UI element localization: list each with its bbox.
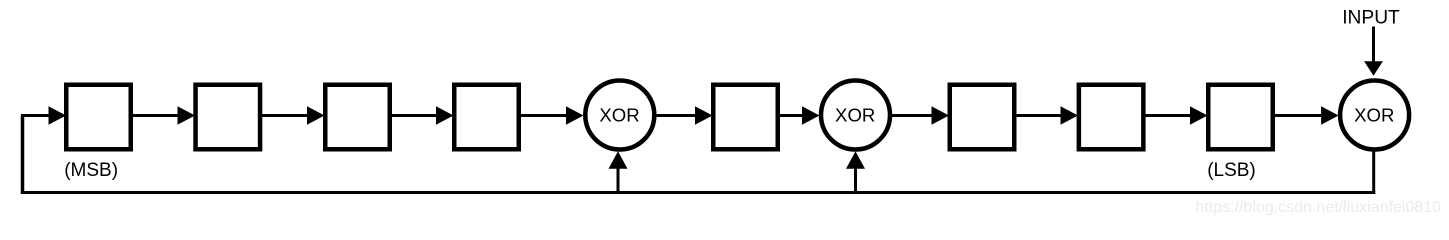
register b5	[325, 85, 390, 150]
register b1	[1079, 85, 1144, 150]
wire arrow: b6 to b5	[261, 106, 325, 124]
XOR gate U2	[821, 81, 890, 150]
svg-text:INPUT: INPUT	[1342, 7, 1400, 28]
wire arrow: XOR U1 to b3	[655, 106, 713, 124]
wire arrow: b5 to b4	[391, 106, 454, 124]
register b3	[713, 85, 778, 150]
wire arrow: b7 to b6	[132, 106, 195, 124]
svg-text:https://blog.csdn.net/liuxianf: https://blog.csdn.net/liuxianfei0810	[1196, 199, 1442, 216]
wire arrow: XOR U2 to b2	[891, 106, 949, 124]
wire arrow: feedback into register b7	[21, 106, 66, 124]
svg-text:XOR: XOR	[1354, 104, 1394, 125]
svg-text:XOR: XOR	[599, 104, 639, 125]
wire arrow: INPUT into XOR U3	[1364, 27, 1383, 76]
wire arrow: b0 to XOR U3	[1274, 106, 1339, 124]
svg-text:(LSB): (LSB)	[1207, 160, 1256, 181]
wire arrow: b2 to b1	[1015, 106, 1078, 124]
register b2	[950, 85, 1015, 150]
wire arrow: feedback tap into XOR U1	[609, 151, 628, 194]
register b6	[196, 85, 260, 150]
svg-text:XOR: XOR	[835, 104, 875, 125]
wire arrow: b4 to XOR U1	[520, 106, 584, 124]
wire arrow: feedback tap into XOR U2	[846, 151, 865, 194]
register b4	[454, 85, 519, 150]
wire arrow: b1 to b0	[1144, 106, 1208, 124]
feedback wire: drop from XOR U3 output to bottom rail	[1372, 151, 1375, 195]
register b7 (MSB)	[66, 85, 131, 150]
wire arrow: b3 to XOR U2	[779, 106, 820, 124]
register b0 (LSB)	[1208, 85, 1273, 150]
XOR gate U3 (input XOR)	[1340, 81, 1409, 150]
feedback wire: left vertical segment	[21, 116, 25, 193]
XOR gate U1	[585, 81, 654, 150]
feedback wire: bottom horizontal segment	[21, 191, 1375, 194]
svg-text:(MSB): (MSB)	[64, 160, 118, 181]
